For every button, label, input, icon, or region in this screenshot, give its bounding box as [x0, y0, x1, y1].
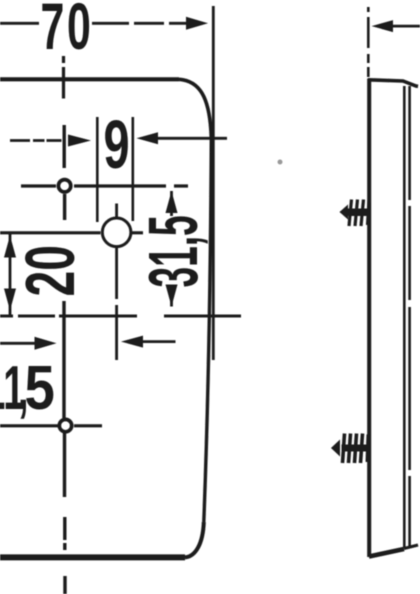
- horizontal centerline big hole y=233: [0, 231, 143, 234]
- svg-text:20: 20: [10, 245, 89, 296]
- vertical centerline of big hole x=116.6: [115, 204, 118, 361]
- dim 11,5: right arrow tail: [141, 340, 176, 343]
- dim 9: left arrow tail dashes: [10, 139, 62, 142]
- arrowhead 9 right (pointing left): [137, 132, 159, 144]
- arrowhead 70 right: [186, 17, 208, 30]
- front view top-right corner: [179, 79, 211, 138]
- text 20 (rotated): [10, 245, 89, 296]
- side view dim: extension line x=368.3: [367, 7, 370, 77]
- arrowhead 20 up: [4, 236, 16, 258]
- front view bottom-right corner: [185, 522, 204, 557]
- screw 1: [340, 200, 370, 227]
- dim 31,5: dimension line segments x=171.3: [170, 191, 173, 307]
- dim 20: dimension line x=10: [9, 234, 12, 315]
- text 70: [41, 0, 91, 63]
- arrowhead 31,5 down: [166, 285, 178, 307]
- arrowhead 9 left (pointing right): [68, 135, 91, 147]
- horizontal centerline small hole top y=186.5: [21, 184, 188, 187]
- vertical centerline of small holes x=64: [64, 125, 65, 594]
- horizontal centerline lamp axis y=316: [0, 315, 241, 318]
- arrowhead side-dim left: [372, 20, 393, 32]
- horizontal centerline small hole bottom y=426: [0, 424, 102, 427]
- big hole: [102, 218, 131, 247]
- side view bottom step: [404, 545, 418, 549]
- side view lens front face: [367, 79, 371, 558]
- front view right edge: [204, 138, 212, 522]
- svg-text:9: 9: [104, 106, 130, 183]
- small hole bottom: [59, 419, 71, 431]
- text 11,5: [0, 353, 29, 423]
- svg-text:31,5: 31,5: [133, 215, 212, 287]
- front view top edge: [0, 77, 179, 81]
- dim 9: extension line left x=99: [96, 117, 99, 222]
- side view body line 1: [403, 86, 406, 548]
- text 31,5 (rotated): [133, 215, 212, 287]
- front view bottom edge: [0, 554, 185, 560]
- vertical centerline tick at top edge x=63.5: [62, 56, 65, 99]
- side view body line 2 (dashed): [408, 86, 411, 548]
- side view bottom edge: [369, 549, 404, 557]
- arrowhead 20 down: [4, 289, 16, 311]
- small hole top: [58, 180, 70, 192]
- svg-text:5: 5: [25, 354, 55, 423]
- dim 9: extension line right x=132.7: [132, 117, 135, 221]
- screw 2: [331, 434, 369, 464]
- arrowhead 31,5 up: [166, 191, 178, 213]
- dim 70: extension line right x=213.3: [212, 6, 215, 360]
- arrowhead 11,5 left: [121, 336, 143, 348]
- arrowhead 11,5 right: [35, 337, 57, 350]
- side view dim: line at top right y=26: [390, 25, 420, 28]
- dim 70: dimension line dashes: [0, 22, 187, 25]
- scan speck: [278, 160, 283, 165]
- text 9: [104, 106, 130, 183]
- side view top flange edge: [368, 80, 418, 87]
- dim 11,5: left part y=343.3: [0, 342, 36, 345]
- dim 9: right arrow tail: [155, 137, 227, 140]
